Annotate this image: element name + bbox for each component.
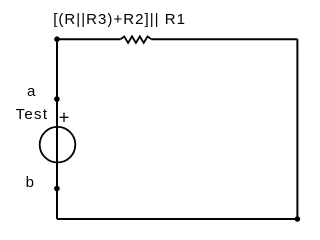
label a — [27, 84, 35, 99]
label Test — [16, 107, 49, 122]
plus polarity mark — [60, 116, 69, 118]
wire right vertical — [296, 39, 298, 219]
wire bottom — [57, 218, 297, 220]
wire top-left segment — [57, 38, 121, 40]
node a — [54, 96, 60, 102]
resistor R1 — [121, 36, 152, 43]
wire left vertical — [56, 39, 58, 219]
label b — [26, 175, 34, 190]
node b — [54, 186, 60, 192]
junction top-left — [54, 36, 60, 42]
wire top-right segment — [151, 38, 297, 40]
voltage source Test — [40, 127, 76, 163]
label value [(R||R3)+R2]|| R1 — [53, 12, 186, 27]
junction bottom-right — [295, 216, 301, 222]
